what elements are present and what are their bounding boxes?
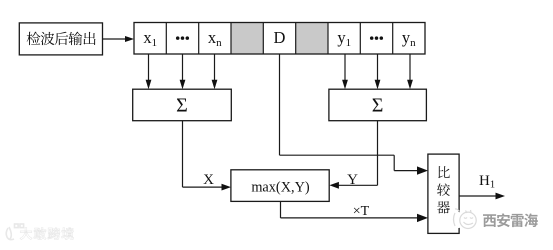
shift register outline xyxy=(134,23,425,55)
svg-text:Σ: Σ xyxy=(372,95,384,117)
max(X,Y) box xyxy=(231,170,329,202)
wire: D cell down xyxy=(279,54,281,155)
wire: y cell 3 down to right sum xyxy=(409,54,411,81)
watermark left logo xyxy=(6,224,23,240)
wire: D horizontal to right xyxy=(280,154,395,156)
wire: x cell 3 down to left sum xyxy=(214,54,216,81)
wire: y cell 1 down to right sum xyxy=(344,54,346,81)
svg-text:X: X xyxy=(203,172,214,188)
wire: D short drop xyxy=(393,155,395,170)
svg-text:max(X,Y): max(X,Y) xyxy=(251,179,310,195)
svg-text:Σ: Σ xyxy=(176,95,188,117)
wire: y cell 2 down to right sum xyxy=(377,54,379,81)
cell label dots right xyxy=(370,36,383,40)
wire: D into comparator xyxy=(394,170,419,172)
wire: Y into max box xyxy=(338,184,378,186)
wire: x cell 1 down to left sum xyxy=(148,54,150,81)
svg-text:Y: Y xyxy=(347,172,358,188)
svg-text:D: D xyxy=(274,28,286,47)
shaded guard cell left xyxy=(231,23,263,55)
register cell divider 8 xyxy=(392,23,394,55)
register cell divider 5 xyxy=(295,23,297,55)
wire: X into max box xyxy=(183,186,223,188)
register cell divider 2 xyxy=(198,23,200,55)
register cell divider 3 xyxy=(230,23,232,55)
wire: max output down xyxy=(280,201,282,218)
register cell divider 6 xyxy=(327,23,329,55)
svg-text:×T: ×T xyxy=(353,204,370,219)
cell label dots left xyxy=(176,36,189,40)
summation box left xyxy=(133,89,232,121)
register cell divider 7 xyxy=(359,23,361,55)
wire: x cell 2 down to left sum xyxy=(182,54,184,81)
input box: 检波后输出 xyxy=(19,23,102,55)
register cell divider 4 xyxy=(262,23,264,55)
watermark left text 大敢跨境 xyxy=(20,227,32,239)
summation box right xyxy=(329,89,427,121)
watermark right text 西安雷海 xyxy=(483,214,496,227)
register cell divider 1 xyxy=(165,23,167,55)
watermark right logo xyxy=(453,212,464,228)
wire: comparator output H1 xyxy=(459,195,496,197)
wire: left sum output down (X) xyxy=(182,121,184,187)
wire: xT into comparator xyxy=(281,217,420,219)
shaded guard cell right xyxy=(296,23,328,55)
comparator box 比较器 xyxy=(428,154,459,233)
wire: input box to register xyxy=(103,38,126,40)
wire: right sum output down (Y) xyxy=(377,121,379,186)
